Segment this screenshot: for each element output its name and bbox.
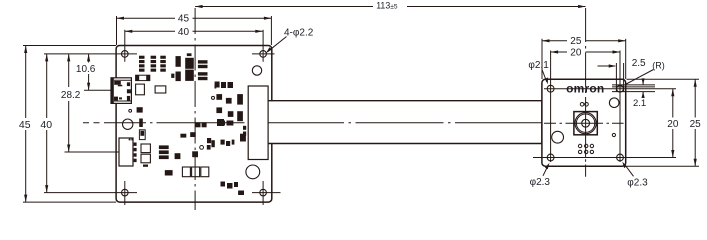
resistor R1 [143,165,148,167]
resistor R6 [192,151,198,157]
mounting hole left PCB top-left [44,30,137,62]
component array A1 (3x4 chip bars top-left) [139,56,166,72]
dimension 113±5 overall [195,6,585,8]
dimension 28.2 [65,54,120,152]
resistor array R2 stack [159,145,169,159]
capacitor C5 open [141,144,150,153]
mounting hole right PCB top-left [547,85,554,92]
right PCB hole column lines [550,51,552,163]
resistor R5 [190,132,196,137]
hole plain bottom [246,165,260,179]
dimension 45 top [117,16,272,45]
hole plain left lower [552,131,564,143]
svg-text:40: 40 [40,119,52,131]
hole plain top-right [252,66,261,75]
leader φ2.1 [542,70,547,83]
hole plain left [123,119,133,129]
left PCB outline [116,46,272,203]
via small right [612,133,615,136]
dimension 25 right side [627,79,700,166]
hole plain right upper [609,98,619,108]
dimension 45 left [23,46,116,203]
pad grid 3x2 [578,144,593,153]
via hole small [200,146,204,150]
wire centerline horizontal (cable axis) [83,122,153,124]
svg-text:20: 20 [667,119,679,130]
inductor L1 [136,75,150,80]
via hole small [212,96,215,99]
svg-text:2.1: 2.1 [633,98,646,109]
leader 4-φ2.2 [268,37,287,52]
scatter chips mid [216,94,243,126]
resistor pair R8 [196,122,207,127]
svg-text:(R): (R) [652,60,665,70]
dimension 2.5 [598,65,616,67]
dimension 40 left [46,54,48,193]
via hole small [127,89,130,92]
bottom scatter chips [221,182,245,196]
dimension 20 top right-board [551,51,620,53]
mounting hole right PCB bottom-left [547,154,554,161]
svg-text:φ2.1: φ2.1 [528,60,549,71]
dimension 40 top [125,30,263,32]
mounting hole left PCB bottom-right [252,181,281,205]
svg-text:40: 40 [178,27,190,38]
svg-text:25: 25 [570,36,582,47]
dimension 2.1 [642,79,644,98]
leader φ2.3 right [624,164,633,176]
via hole small [129,109,132,112]
component C1 open [155,86,166,93]
lens aperture [582,119,590,127]
lens housing U2 [574,112,597,135]
wire flat cable band [268,101,542,143]
chip cluster bottom-mid [207,134,246,150]
mounting hole left PCB bottom-left [44,181,137,205]
dimension 10.6 [84,54,111,90]
svg-text:25: 25 [690,119,702,130]
leader R corner [626,70,653,85]
capacitor C4 electrolytic [139,130,145,140]
svg-text:2.5: 2.5 [632,58,646,69]
via pair above lens [580,103,584,107]
IC U1 cluster top-center [171,53,216,88]
right PCB hole row lines [544,88,676,90]
node right-board vertical centerline [585,8,587,100]
connector J3 lower left [119,138,137,166]
svg-text:28.2: 28.2 [61,90,81,101]
svg-text:45: 45 [178,13,190,24]
capacitor C3 [139,119,143,128]
lens barrel outer [575,113,596,134]
mounting hole right PCB bottom-right [617,154,624,161]
crystal X1 [136,84,145,95]
resistor R3 [175,153,181,159]
dimension 20 right side [672,89,674,158]
node left-board vertical centerline [194,8,196,210]
connector USB J2 [111,78,131,104]
svg-text:4-φ2.2: 4-φ2.2 [284,27,314,38]
right PCB outline [542,79,626,166]
mounting hole left PCB top-right [252,30,275,62]
resistor pair R9 [219,121,234,126]
chips near connector [243,126,246,136]
mounting hole right PCB top-right [617,85,624,92]
rear connector edge lines top-right [612,63,655,92]
svg-text:10.6: 10.6 [76,64,96,75]
connector J1 FFC on left PCB [248,86,268,160]
svg-text:φ2.3: φ2.3 [627,178,648,189]
chip row R10 [215,82,233,89]
capacitor bank C7 open squares [182,167,208,177]
capacitor C6 open [141,154,150,163]
svg-text:45: 45 [19,119,31,131]
leader φ2.3 left [543,165,548,176]
svg-text:φ2.3: φ2.3 [530,177,551,188]
dimension 25 top right-board [542,39,626,79]
lens crosshair vertical [585,100,587,157]
capacitor C2 [137,107,143,112]
resistor R4 [180,134,186,138]
resistor R7 [165,170,173,175]
lens crosshair horizontal [544,122,624,124]
lens barrel inner ring [576,114,594,132]
svg-text:20: 20 [570,47,582,58]
